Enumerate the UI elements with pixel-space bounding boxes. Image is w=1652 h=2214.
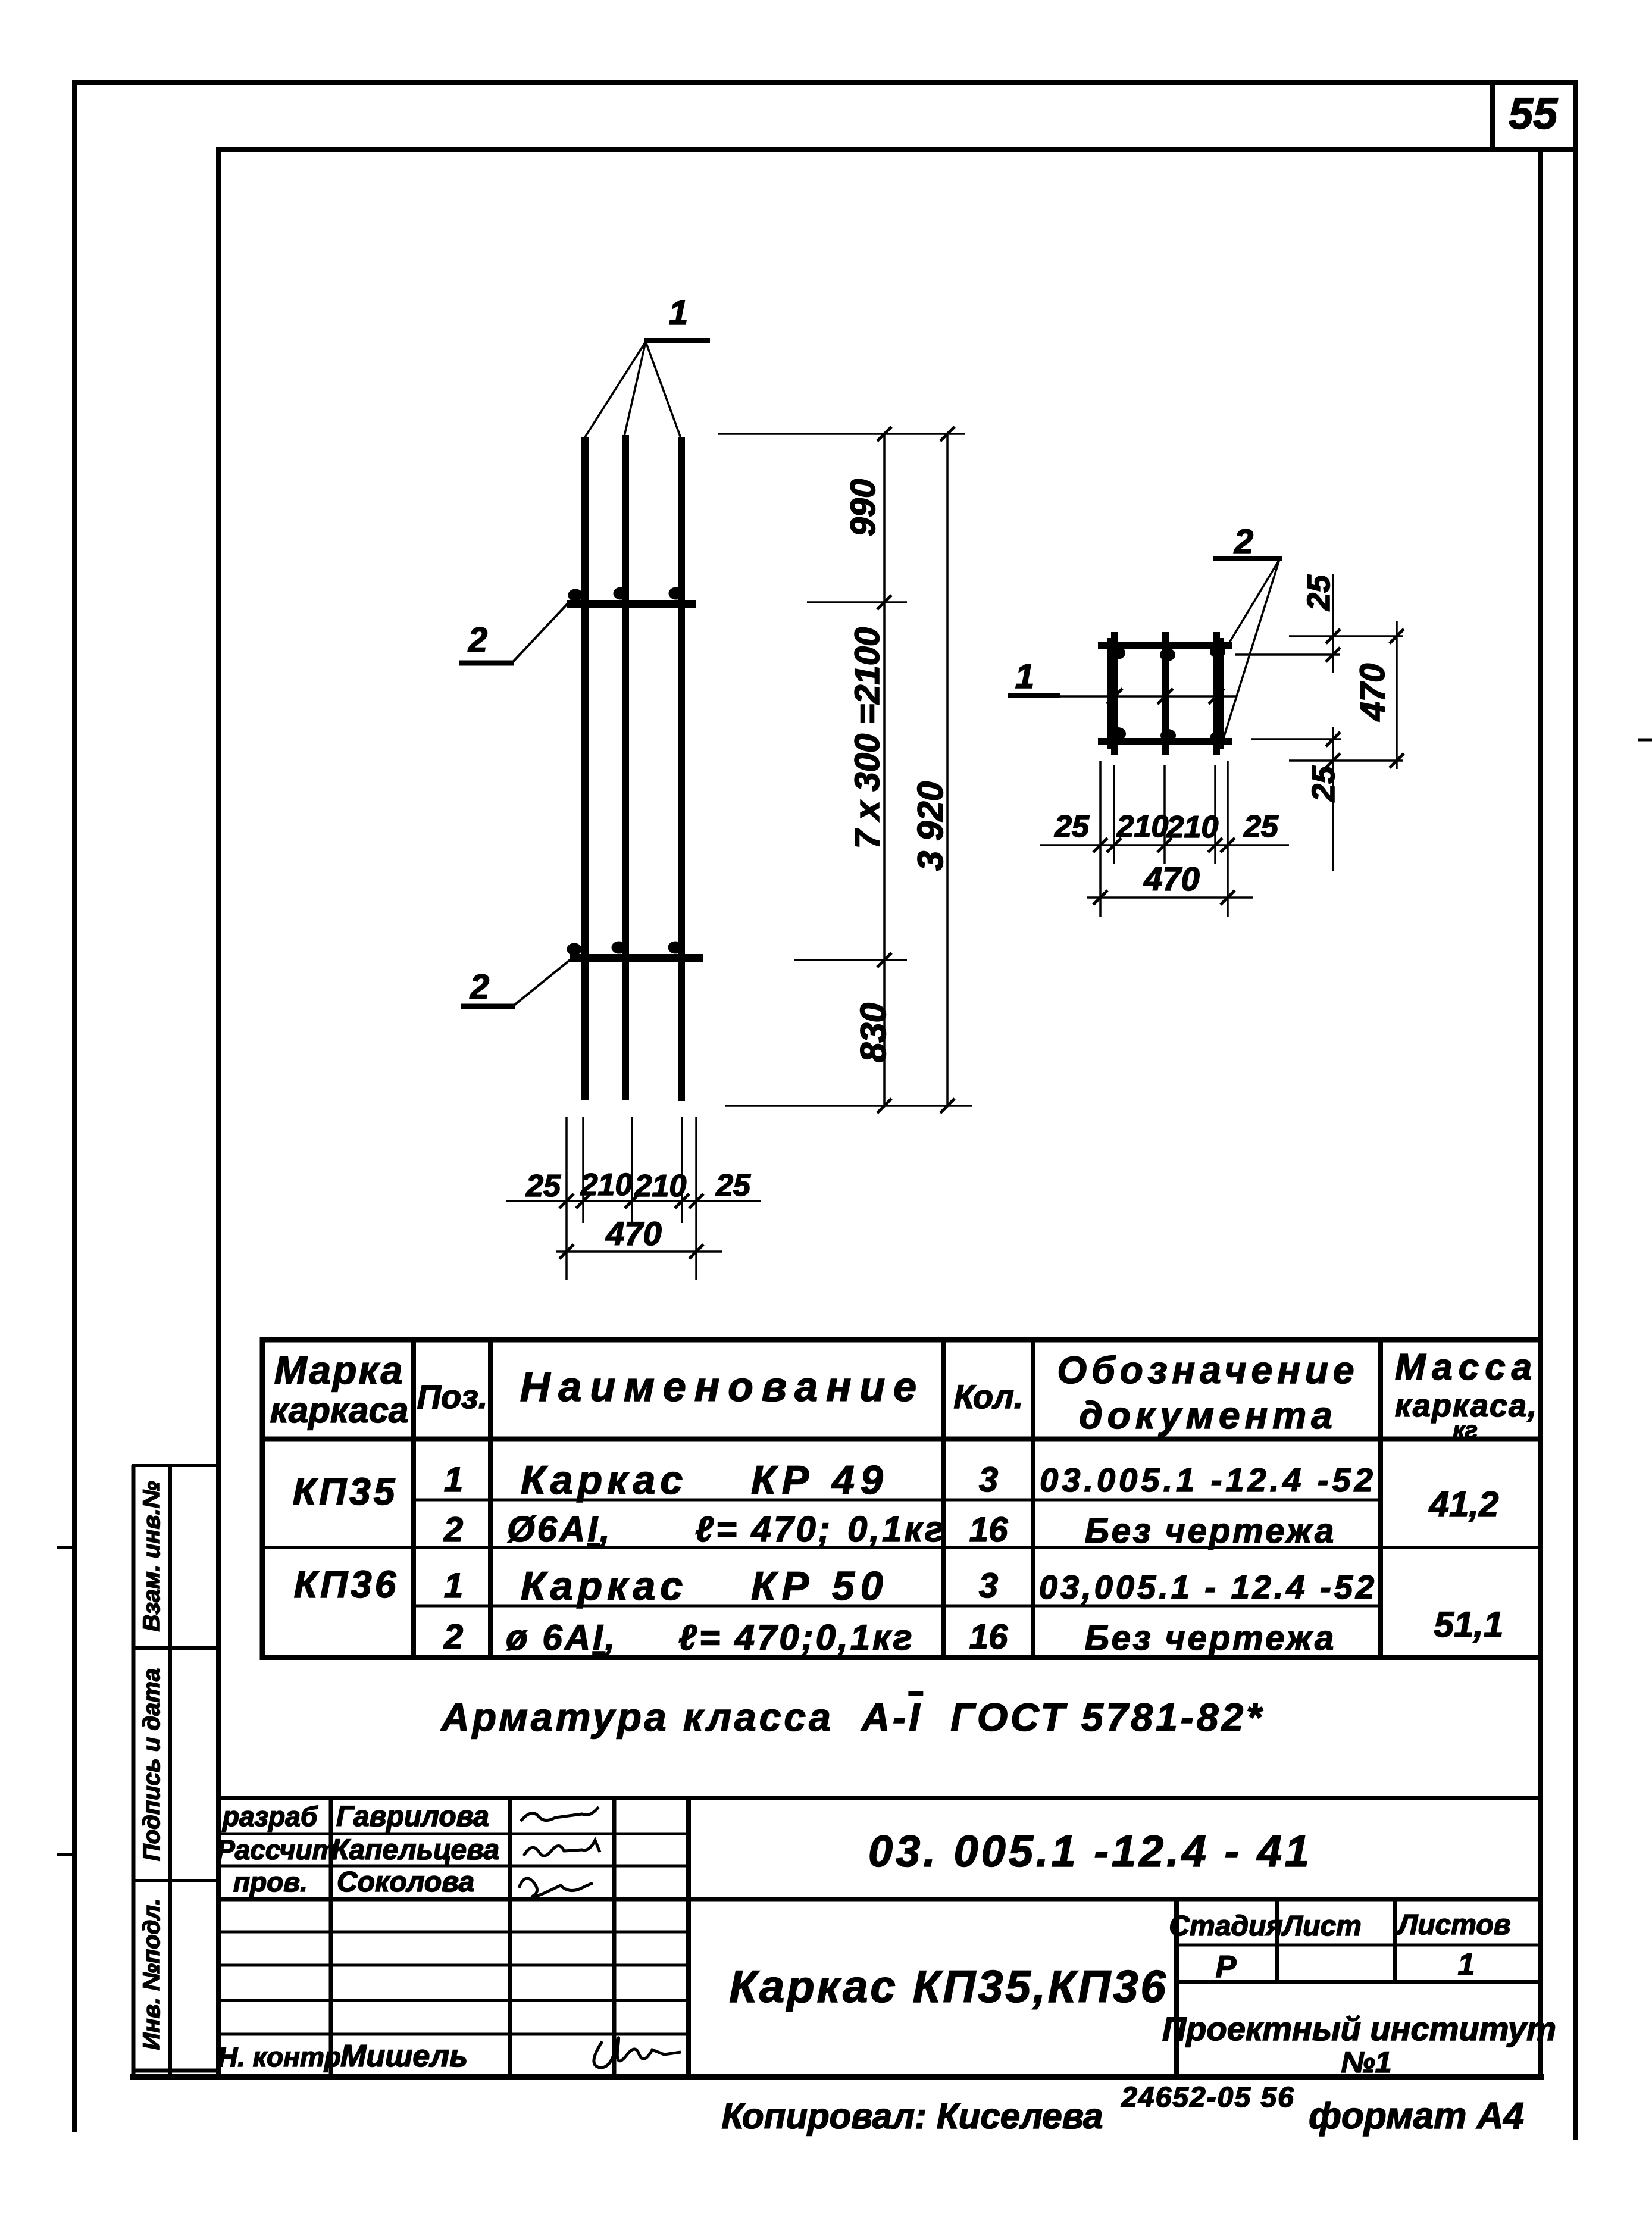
svg-text:документа: документа — [1079, 1394, 1337, 1437]
svg-text:3 920: 3 920 — [911, 781, 950, 871]
sig row line 6 — [218, 1999, 689, 2002]
sig row line 7 — [218, 2033, 689, 2036]
stamp row line 1 — [1177, 1944, 1540, 1947]
svg-text:Рассчит: Рассчит — [217, 1834, 337, 1865]
table col line Marka/Poz — [411, 1340, 416, 1658]
section ext line right top a — [1289, 635, 1403, 637]
sig col line 2 — [508, 1798, 512, 2079]
svg-text:2: 2 — [468, 621, 487, 659]
table header bottom line — [260, 1437, 1540, 1442]
table group line — [260, 1546, 1540, 1549]
svg-text:Каркас КП35,КП36: Каркас КП35,КП36 — [729, 1962, 1168, 2012]
section leader 2 underline — [1213, 556, 1282, 561]
leader 1 fan line a — [584, 342, 646, 438]
rebar 1 left vertical bar — [581, 437, 589, 1100]
wire dot a — [568, 589, 583, 601]
svg-text:Гаврилова: Гаврилова — [336, 1801, 489, 1833]
svg-text:210: 210 — [1166, 810, 1219, 845]
leader 2 lower line — [514, 959, 571, 1005]
svg-text:7 х 300 =2100: 7 х 300 =2100 — [848, 627, 887, 849]
section bottom ext right edge — [1227, 761, 1229, 917]
section dim line 470 bottom — [1087, 896, 1253, 899]
dimension line 470 — [556, 1250, 722, 1253]
svg-text:Арматура класса А-I ГОСТ 578: Арматура класса А-I ГОСТ 5781-82* — [440, 1695, 1265, 1739]
svg-text:КП36: КП36 — [294, 1563, 399, 1606]
svg-text:Подпись и дата: Подпись и дата — [139, 1668, 165, 1861]
svg-text:Ø6АI,ℓ= 470;0,1кг: Ø6АI,ℓ= 470;0,1кг — [507, 1509, 946, 1549]
dim ticks row2 — [559, 1244, 703, 1259]
section wire dots — [1110, 645, 1225, 745]
extension line bar3 — [681, 1117, 683, 1223]
svg-text:470: 470 — [1353, 664, 1392, 722]
section dim line 470 right — [1396, 621, 1398, 769]
stamp col line 2 — [1393, 1899, 1397, 1982]
section ext line right bottom b — [1289, 759, 1403, 762]
rebar 1 middle vertical bar — [622, 435, 629, 1100]
outer frame top — [72, 80, 1578, 85]
inner frame left — [216, 147, 221, 2079]
table left border — [260, 1337, 265, 1660]
outer frame bottom — [130, 2074, 1544, 2080]
extension line tie2 level — [794, 959, 907, 961]
svg-text:55: 55 — [1509, 89, 1559, 138]
leader 2 upper line — [513, 603, 568, 662]
svg-text:Листов: Листов — [1396, 1909, 1510, 1941]
signature squiggle 2 — [524, 1840, 600, 1856]
svg-text:КаркасКР 49: КаркасКР 49 — [521, 1458, 889, 1503]
dim ticks row1 — [559, 1194, 703, 1208]
trim mark lower — [57, 1853, 74, 1856]
leader 2 lower underline — [461, 1004, 515, 1009]
svg-text:формат А4: формат А4 — [1309, 2096, 1524, 2137]
section ext line right top b — [1235, 653, 1340, 656]
svg-text:16: 16 — [969, 1618, 1008, 1656]
extension line bar2 — [631, 1117, 633, 1223]
sig row line 4 — [218, 1931, 689, 1934]
extension line top right — [718, 433, 965, 435]
section bar middle — [1162, 632, 1169, 755]
svg-text:Обозначение: Обозначение — [1057, 1349, 1359, 1391]
svg-text:Наименование: Наименование — [520, 1364, 925, 1410]
table row line 2 — [414, 1605, 1381, 1608]
svg-text:3: 3 — [979, 1566, 998, 1605]
signature squiggle 4 — [594, 2038, 681, 2068]
section square — [1098, 638, 1232, 749]
sig row line 3 and doc cell bottom — [218, 1897, 1540, 1902]
title block top — [216, 1796, 1540, 1800]
svg-text:3: 3 — [979, 1461, 998, 1499]
svg-text:2: 2 — [443, 1618, 463, 1656]
svg-text:Без чертежа: Без чертежа — [1085, 1619, 1337, 1658]
svg-text:1: 1 — [444, 1566, 463, 1605]
svg-text:Копировал: Киселева: Копировал: Киселева — [721, 2096, 1103, 2136]
extension line bar1 — [582, 1117, 584, 1223]
svg-text:Стадия: Стадия — [1169, 1910, 1282, 1942]
section bottom ext bar2 — [1163, 765, 1166, 864]
sig row line 1 — [218, 1833, 689, 1835]
wire dot c — [669, 587, 683, 599]
table row line 1 — [414, 1499, 1381, 1502]
svg-text:КП35: КП35 — [293, 1470, 398, 1513]
svg-text:1: 1 — [1458, 1947, 1475, 1982]
svg-text:каркаса: каркаса — [270, 1390, 408, 1430]
side strip bottom — [132, 2069, 216, 2073]
wire dot e — [612, 942, 626, 953]
wire dot f — [668, 942, 683, 953]
section bottom ext left edge — [1099, 761, 1102, 917]
signature squiggle 3 — [519, 1878, 593, 1897]
side strip section line 2 — [132, 1879, 216, 1882]
svg-text:470: 470 — [1143, 860, 1199, 898]
svg-text:25: 25 — [1243, 809, 1279, 844]
svg-text:2: 2 — [1234, 523, 1253, 561]
svg-text:25: 25 — [715, 1168, 751, 1203]
inner frame top — [216, 147, 1576, 152]
svg-text:2: 2 — [470, 968, 489, 1006]
svg-text:Капельцева: Капельцева — [331, 1834, 499, 1866]
vertical dimension line A — [883, 434, 886, 1106]
svg-text:Р: Р — [1216, 1950, 1237, 1984]
svg-text:51,1: 51,1 — [1434, 1605, 1504, 1644]
svg-text:41,2: 41,2 — [1429, 1484, 1499, 1524]
extension line bottom level — [725, 1105, 972, 1107]
svg-text:24652-05 56: 24652-05 56 — [1121, 2082, 1295, 2113]
sheet number box divider — [1490, 82, 1495, 149]
section leader 2 fan b — [1224, 559, 1279, 738]
section dim line 25 bottom — [1332, 727, 1334, 871]
svg-text:кг: кг — [1453, 1417, 1478, 1443]
svg-text:25: 25 — [1306, 765, 1341, 802]
stamp col line 1 — [1275, 1899, 1279, 1982]
svg-text:пров.: пров. — [233, 1866, 308, 1897]
svg-text:03.005.1 -12.4 -52: 03.005.1 -12.4 -52 — [1040, 1461, 1376, 1499]
svg-text:03,005.1 - 12.4 -52: 03,005.1 - 12.4 -52 — [1039, 1568, 1377, 1606]
table col line Naim/Kol — [941, 1340, 946, 1658]
signature squiggle 1 — [521, 1807, 599, 1821]
section leader 1 underline — [1008, 693, 1060, 698]
sig row line 2 — [218, 1865, 689, 1868]
svg-text:25: 25 — [1301, 574, 1337, 611]
section bottom 470 ticks — [1093, 890, 1235, 905]
side strip section line 1 — [132, 1646, 216, 1650]
svg-text:№1: №1 — [1341, 2046, 1391, 2079]
table col line Oboz/Massa — [1378, 1340, 1383, 1658]
wire dot b — [614, 587, 628, 599]
sig col line 1 — [329, 1798, 333, 2079]
svg-text:КаркасКР 50: КаркасКР 50 — [521, 1563, 889, 1609]
section bar right — [1213, 632, 1220, 755]
svg-text:16: 16 — [969, 1511, 1008, 1549]
section bottom ext bar3 — [1214, 765, 1216, 864]
svg-text:Проектный институт: Проектный институт — [1162, 2010, 1556, 2047]
dim ticks vertical — [877, 427, 955, 1113]
stamp row line 2 — [1177, 1980, 1540, 1984]
svg-text:Марка: Марка — [274, 1348, 405, 1392]
trim mark upper — [57, 1546, 74, 1549]
svg-text:Лист: Лист — [1281, 1910, 1362, 1942]
section bottom dim ticks — [1093, 838, 1235, 852]
table col line Poz/Naim — [488, 1340, 493, 1658]
section right dim ticks — [1326, 629, 1404, 768]
section leader 2 fan a — [1227, 559, 1279, 646]
svg-text:1: 1 — [444, 1461, 463, 1499]
section ext line right bottom a — [1251, 738, 1341, 740]
side strip divider — [168, 1465, 172, 2074]
svg-text:Кол.: Кол. — [954, 1378, 1024, 1415]
sig row line 5 — [218, 1964, 689, 1967]
outer frame left — [72, 80, 77, 2132]
svg-text:03. 005.1 -12.4 - 41: 03. 005.1 -12.4 - 41 — [868, 1827, 1312, 1876]
leader 1 fan line c — [646, 342, 681, 438]
table bottom border — [260, 1655, 1540, 1661]
sig col line 3 — [612, 1798, 617, 2079]
dimension line 25-210-210-25 — [506, 1200, 761, 1202]
side strip top — [132, 1464, 216, 1467]
section bar left — [1111, 632, 1118, 755]
svg-text:Поз.: Поз. — [417, 1378, 488, 1415]
svg-text:Взам. инв.№: Взам. инв.№ — [139, 1481, 165, 1631]
svg-text:Мишель: Мишель — [340, 2039, 468, 2074]
table col line Kol/Oboz — [1031, 1340, 1035, 1658]
leader 2 upper underline — [459, 661, 514, 666]
vertical dimension line B 3920 — [946, 434, 949, 1106]
svg-text:разраб: разраб — [221, 1801, 318, 1832]
outer frame right — [1573, 80, 1578, 2140]
svg-text:Н. контр: Н. контр — [218, 2041, 341, 2072]
leader 1 fan line b — [624, 342, 646, 436]
extension line bottom left edge — [565, 1117, 568, 1280]
extension line bottom right edge — [695, 1117, 697, 1280]
section cut line — [1060, 695, 1237, 698]
side strip left edge — [132, 1465, 136, 2074]
table top border — [260, 1337, 1540, 1343]
svg-text:210: 210 — [580, 1168, 633, 1202]
svg-text:1: 1 — [669, 293, 688, 332]
section bottom ext bar1 — [1113, 765, 1115, 864]
svg-text:470: 470 — [605, 1215, 661, 1252]
section dim line 25 top — [1332, 574, 1334, 673]
leader 1 underline — [644, 338, 710, 343]
svg-text:25: 25 — [1054, 809, 1090, 844]
section dim line 25-210-210-25 — [1040, 844, 1289, 846]
svg-text:210: 210 — [634, 1169, 687, 1203]
title col line name/stamp — [1174, 1899, 1179, 2079]
svg-text:2: 2 — [443, 1511, 463, 1549]
scanner mark right edge — [1638, 739, 1652, 742]
svg-text:Масса: Масса — [1395, 1347, 1538, 1388]
svg-text:25: 25 — [525, 1169, 561, 1203]
sig col line 4 — [686, 1798, 691, 2079]
rebar 1 right vertical bar — [678, 437, 685, 1101]
svg-text:Без чертежа: Без чертежа — [1085, 1512, 1337, 1550]
tie bar 2 lower — [570, 954, 703, 962]
wire dot d — [567, 943, 581, 955]
svg-text:830: 830 — [853, 1003, 893, 1062]
svg-text:210: 210 — [1116, 809, 1169, 844]
extension line tie1 level — [807, 601, 907, 603]
tie bar 2 upper — [567, 600, 696, 608]
section cut hatch ticks — [1107, 689, 1224, 704]
inner frame right — [1538, 147, 1543, 2079]
svg-text:1: 1 — [1015, 657, 1034, 696]
svg-text:Инв. №подл.: Инв. №подл. — [139, 1899, 165, 2050]
svg-text:Соколова: Соколова — [337, 1866, 474, 1898]
svg-text:990: 990 — [844, 479, 883, 537]
svg-text:ø 6АI,ℓ= 470;0,1кг: ø 6АI,ℓ= 470;0,1кг — [506, 1618, 915, 1658]
